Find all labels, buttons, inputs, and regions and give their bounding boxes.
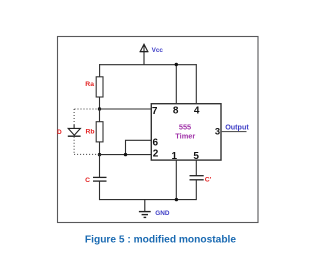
dotted wire diode cathode to node B xyxy=(74,153,99,155)
op-amp U1 555 timer body xyxy=(151,104,221,160)
wire capacitor C to ground rail xyxy=(99,181,101,200)
junction pin 1 / ground rail xyxy=(175,198,178,201)
wire ground rail xyxy=(100,199,197,201)
wire Rb bottom to node B xyxy=(99,142,101,155)
svg-text:3: 3 xyxy=(215,125,220,136)
wire node B to capacitor C xyxy=(99,155,101,178)
wire capacitor C' to ground rail xyxy=(195,180,197,200)
svg-text:Vcc: Vcc xyxy=(152,47,164,54)
Vcc power symbol xyxy=(140,44,149,64)
svg-text:7: 7 xyxy=(152,106,158,117)
svg-text:4: 4 xyxy=(194,106,200,117)
svg-text:Ra: Ra xyxy=(85,81,94,88)
svg-text:Rb: Rb xyxy=(85,129,94,136)
node B junction xyxy=(98,153,101,156)
wire Ra bottom to node A xyxy=(99,97,101,109)
resistor Ra xyxy=(96,77,103,97)
wire pin 2 xyxy=(100,154,152,156)
svg-text:Timer: Timer xyxy=(175,132,195,141)
ground symbol xyxy=(139,200,151,218)
dotted wire node A to diode anode xyxy=(74,108,99,110)
wire pin 1 drop xyxy=(175,160,177,200)
wire node A to Rb xyxy=(99,109,101,122)
capacitor C' xyxy=(190,176,204,180)
junction pin 6 / pin 2 wire xyxy=(124,153,127,156)
wire pin 6 xyxy=(126,140,152,154)
dotted wire diode anode vertical xyxy=(73,109,75,125)
wire pin 3 output xyxy=(221,131,247,133)
svg-text:GND: GND xyxy=(155,210,170,217)
svg-text:Figure 5 : modified monostable: Figure 5 : modified monostable xyxy=(85,234,236,245)
svg-text:D: D xyxy=(57,129,62,136)
wire pin 5 drop xyxy=(195,160,197,176)
wire pin 8 drop xyxy=(175,65,177,104)
svg-text:5: 5 xyxy=(193,151,199,162)
dotted wire diode cathode vertical xyxy=(73,137,75,155)
svg-text:C: C xyxy=(85,177,90,184)
resistor Rb xyxy=(96,122,103,142)
junction top rail / pin 8 xyxy=(175,63,178,66)
diode D xyxy=(68,125,81,136)
svg-text:C': C' xyxy=(205,177,212,184)
capacitor C xyxy=(93,177,107,181)
svg-text:8: 8 xyxy=(173,106,179,117)
wire pin 4 drop xyxy=(195,64,197,104)
svg-text:555: 555 xyxy=(179,122,191,131)
wire pin 7 xyxy=(100,108,152,110)
svg-text:2: 2 xyxy=(153,148,159,159)
svg-text:1: 1 xyxy=(172,151,178,162)
svg-text:Output: Output xyxy=(225,123,249,132)
wire top rail xyxy=(100,64,197,66)
wire Ra top xyxy=(99,64,101,77)
node A junction xyxy=(98,107,101,110)
svg-text:6: 6 xyxy=(153,137,159,148)
schematic frame xyxy=(58,37,259,223)
